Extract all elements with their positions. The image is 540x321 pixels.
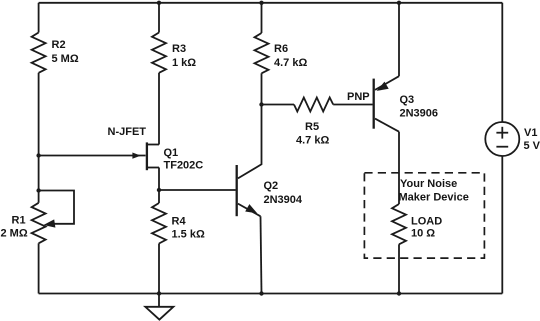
wire R5 left lead (262, 104, 295, 106)
svg-text:2N3904: 2N3904 (264, 194, 303, 206)
node R5 junction (259, 102, 263, 106)
svg-text:V1: V1 (524, 127, 537, 139)
svg-text:Maker Device: Maker Device (399, 192, 469, 204)
node ground junction (157, 291, 161, 295)
resistor R4 (152, 203, 166, 244)
node R6 top (259, 1, 263, 5)
wire gate (39, 155, 146, 157)
transistor Q1 JFET (132, 142, 159, 170)
svg-text:R6: R6 (274, 43, 288, 55)
wire R1 bottom lead (38, 243, 40, 293)
svg-text:2 MΩ: 2 MΩ (1, 228, 28, 240)
wire R5 right lead (333, 104, 372, 106)
svg-text:Your Noise: Your Noise (400, 178, 457, 190)
svg-text:5 V: 5 V (524, 140, 540, 152)
svg-text:R1: R1 (12, 215, 26, 227)
resistor LOAD (392, 204, 406, 244)
wire Q3 collector to load (398, 132, 400, 204)
noise maker device dashed box (364, 173, 484, 258)
svg-text:R5: R5 (305, 121, 319, 133)
svg-text:10 Ω: 10 Ω (411, 228, 435, 240)
svg-text:R4: R4 (172, 215, 187, 227)
svg-text:TF202C: TF202C (164, 159, 204, 171)
wire R3 top lead (158, 3, 160, 33)
resistor R6 (255, 33, 269, 73)
wire V1 bottom lead (501, 156, 503, 294)
wire Q1 source lead (158, 168, 160, 191)
ground (145, 294, 173, 320)
resistor R2 (32, 33, 46, 73)
resistor R5 (294, 98, 333, 112)
transistor Q3 (374, 76, 399, 132)
resistor R3 (152, 33, 166, 73)
wire load bottom lead (398, 244, 400, 293)
svg-text:R3: R3 (172, 43, 186, 55)
wire Q3 emitter (398, 3, 400, 76)
wire R6 bottom lead (261, 73, 263, 104)
wiper arrowhead (43, 219, 55, 227)
resistor R1 potentiometer (32, 203, 46, 244)
svg-text:PNP: PNP (347, 91, 370, 103)
svg-text:4.7 kΩ: 4.7 kΩ (296, 134, 329, 146)
transistor Q2 (237, 165, 261, 216)
wire top rail (39, 2, 503, 4)
svg-text:Q1: Q1 (164, 147, 179, 159)
svg-text:1 kΩ: 1 kΩ (172, 57, 196, 69)
wire R6 top lead (261, 3, 263, 33)
svg-text:Q2: Q2 (264, 180, 279, 192)
voltage source V1 (485, 122, 519, 156)
svg-text:4.7 kΩ: 4.7 kΩ (274, 57, 307, 69)
svg-text:R2: R2 (52, 39, 66, 51)
wire R4 bottom lead (158, 244, 160, 294)
wire R2 top lead (38, 3, 40, 33)
node load bottom junction (397, 291, 401, 295)
node Q3 emitter top (397, 1, 401, 5)
wire Q2 base (159, 189, 236, 191)
node wiper tap (36, 188, 40, 192)
wire Q2 emitter (261, 216, 262, 293)
wire R1 wiper loop (39, 191, 74, 224)
wire left column middle (38, 73, 40, 191)
node Q1 source junction (157, 188, 161, 192)
node R3 top (157, 1, 161, 5)
wire bottom rail (39, 293, 503, 295)
svg-text:N-JFET: N-JFET (108, 126, 147, 138)
svg-text:2N3906: 2N3906 (400, 108, 439, 120)
node gate tap (36, 153, 40, 157)
svg-text:Q3: Q3 (400, 94, 415, 106)
node Q2 emitter junction (259, 291, 263, 295)
wire Q2 collector (238, 105, 262, 179)
svg-text:LOAD: LOAD (411, 215, 442, 227)
svg-text:1.5 kΩ: 1.5 kΩ (172, 228, 205, 240)
wire V1 top lead (501, 3, 503, 122)
wire R1 top lead (38, 191, 40, 203)
svg-text:5 MΩ: 5 MΩ (52, 53, 79, 65)
wire R3 to Q1 drain (158, 73, 160, 145)
wire R4 top lead (158, 190, 160, 203)
